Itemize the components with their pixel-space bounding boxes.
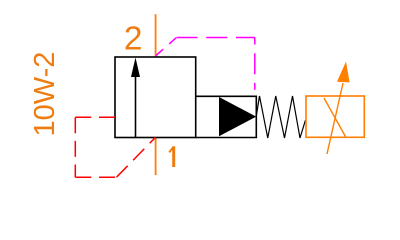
svg-text:2: 2 [124,21,143,58]
svg-text:10W-2: 10W-2 [29,52,61,137]
